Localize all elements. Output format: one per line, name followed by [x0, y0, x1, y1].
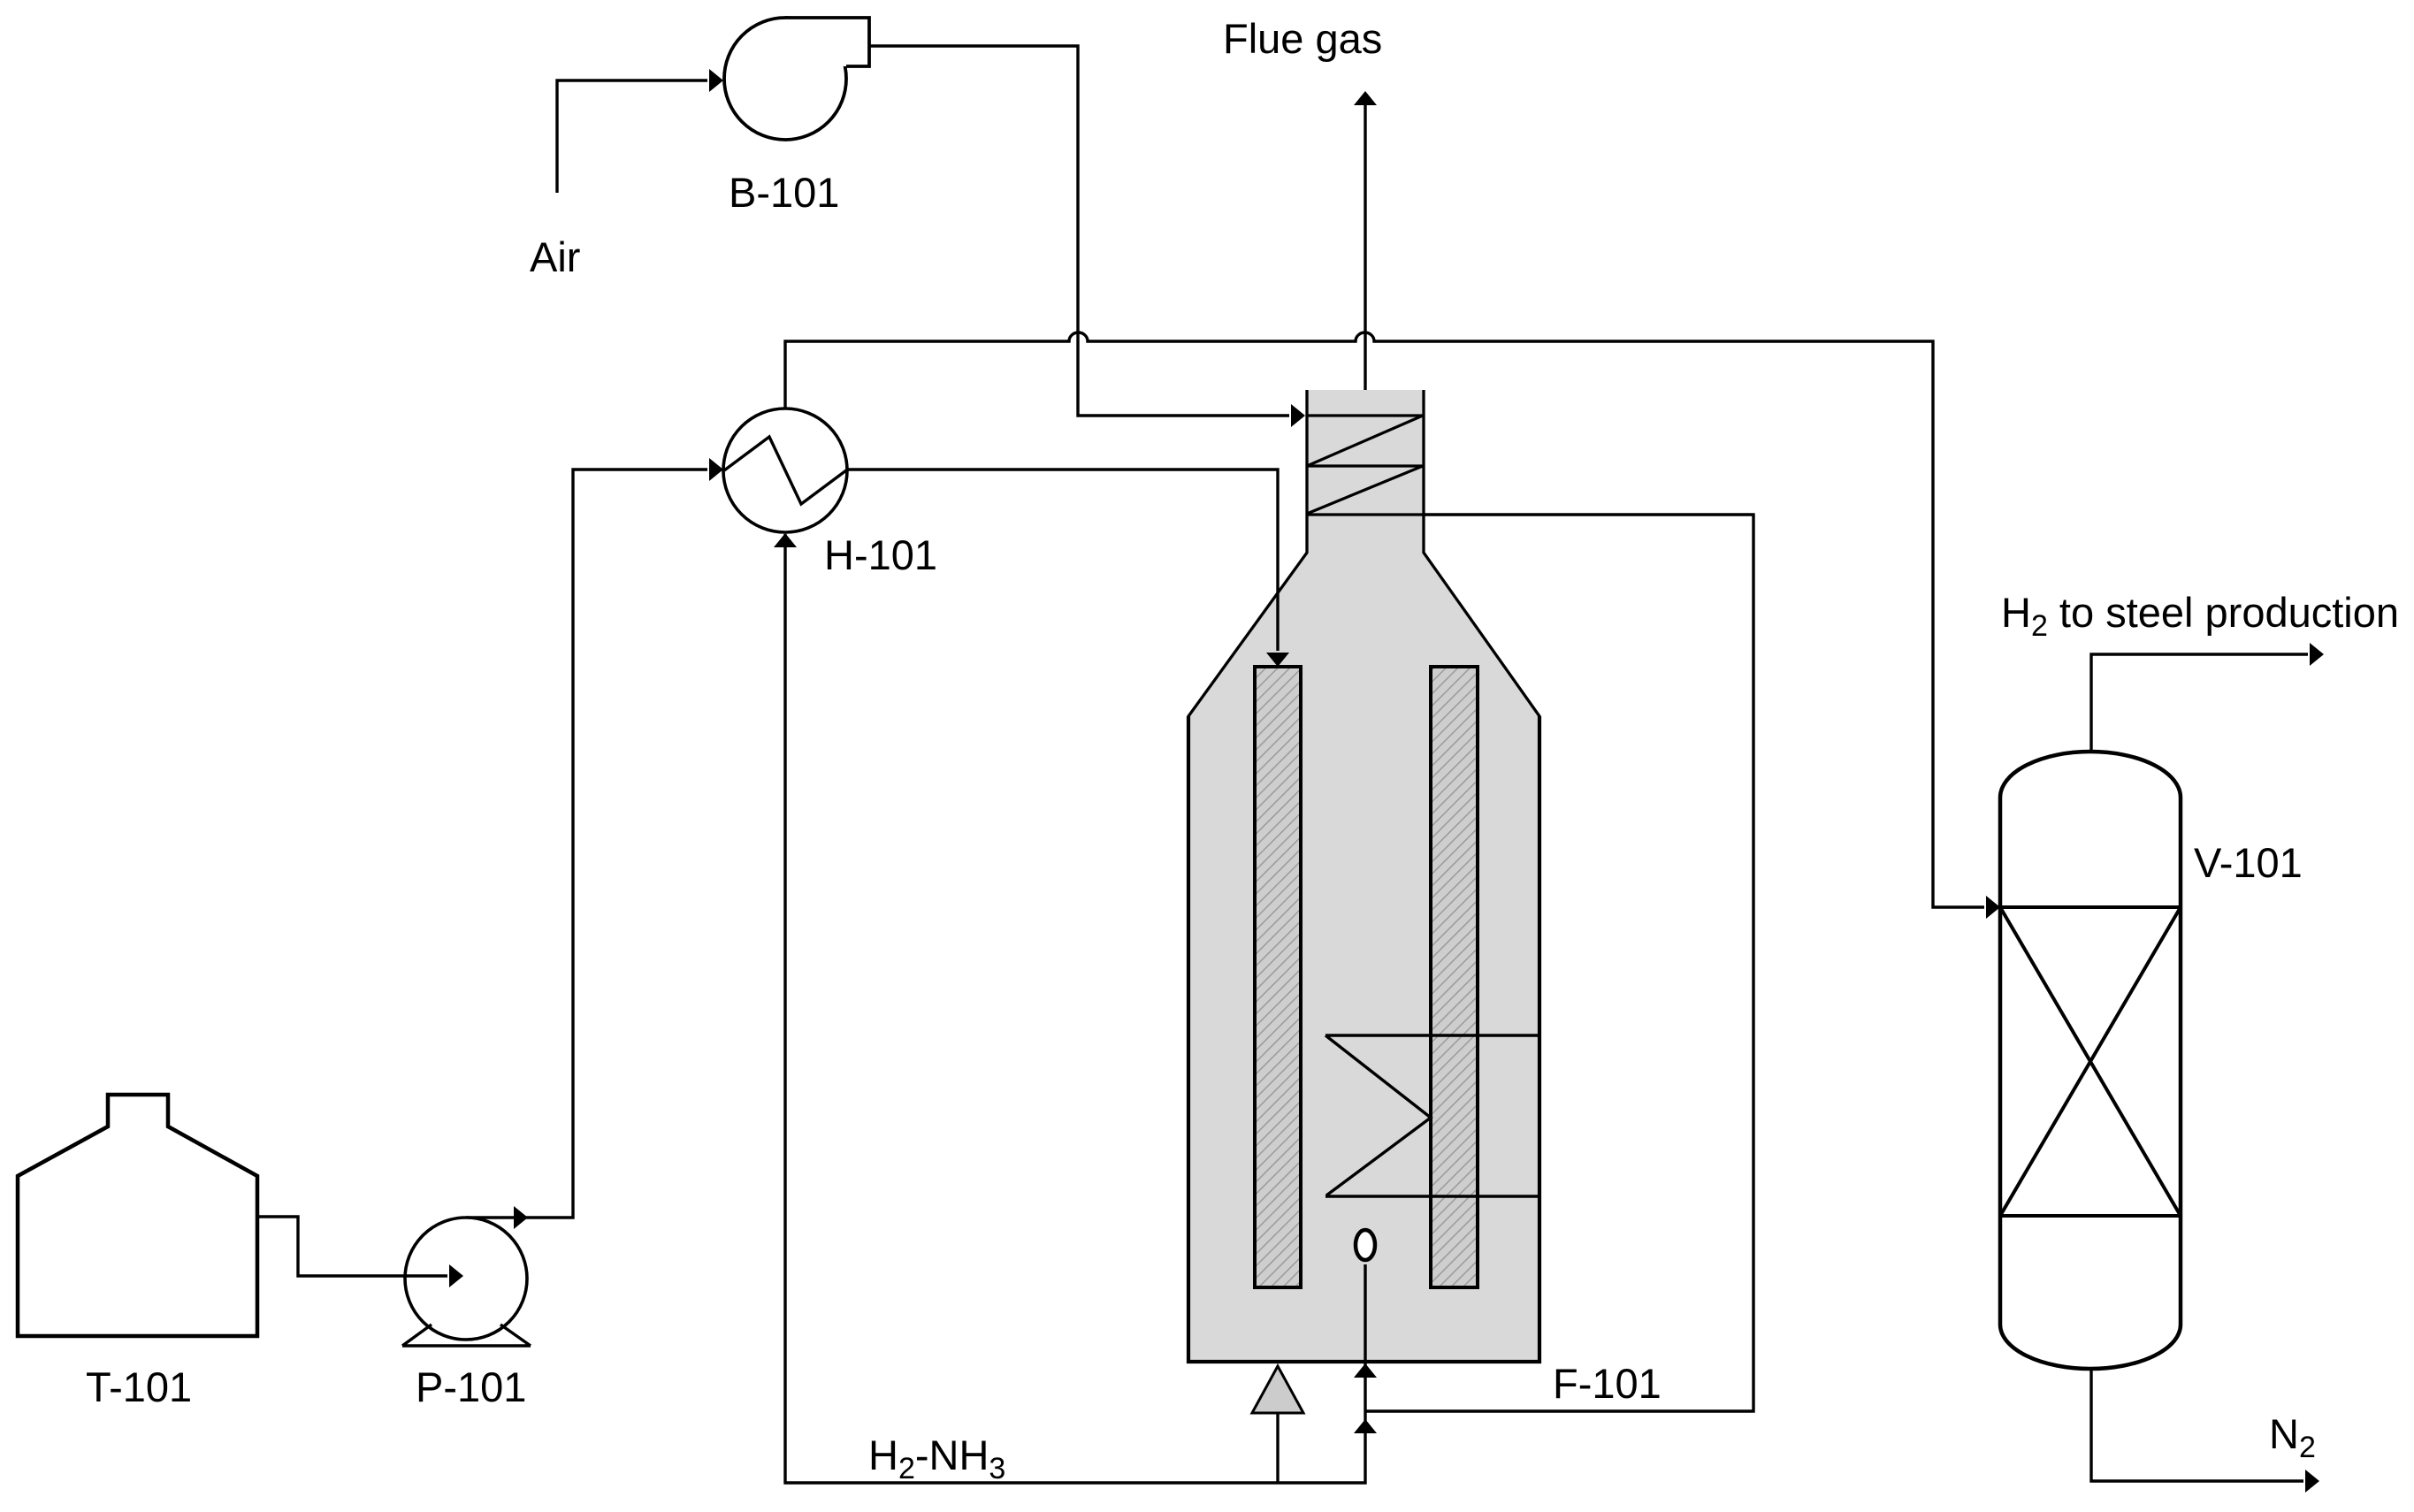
svg-text:P-101: P-101	[416, 1363, 526, 1410]
svg-text:T-101: T-101	[86, 1363, 192, 1410]
svg-text:H2-NH3: H2-NH3	[868, 1432, 1005, 1485]
svg-text:B-101: B-101	[729, 169, 839, 216]
svg-text:V-101: V-101	[2194, 839, 2303, 886]
svg-text:H2 to steel production: H2 to steel production	[2001, 589, 2399, 643]
svg-text:H-101: H-101	[824, 531, 937, 578]
svg-text:F-101: F-101	[1553, 1360, 1662, 1407]
svg-text:Flue gas: Flue gas	[1223, 15, 1382, 62]
svg-text:Air: Air	[530, 233, 580, 280]
